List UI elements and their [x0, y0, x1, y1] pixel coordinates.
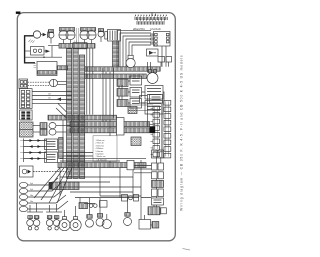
wire bottom feed line [75, 198, 139, 205]
wire bundle frame cross [48, 115, 117, 120]
flasher relay [20, 166, 71, 177]
svg-text:GYel Rwht: GYel Rwht [150, 28, 161, 31]
regulator unit box [45, 152, 58, 163]
tail lamp bulb [124, 198, 132, 226]
wire front lamp feeds [30, 203, 57, 212]
svg-text:6 Ignition: 6 Ignition [96, 153, 104, 156]
connector small bottom [79, 201, 107, 209]
colour code legend row 2 [137, 21, 164, 25]
headlamp bulb [86, 198, 94, 227]
rectifier bridge D1-D4 [20, 139, 47, 163]
registration mark [16, 12, 21, 14]
node text parts list [96, 140, 107, 162]
terminal strip B [164, 101, 171, 158]
spark plug 3 [19, 189, 64, 200]
spark plug 4 [19, 195, 66, 206]
connector block P3 [20, 110, 33, 120]
legend caption text [133, 28, 161, 31]
fuse holder boxes [148, 57, 172, 73]
regulator box [34, 62, 58, 76]
condenser box 3 [130, 99, 142, 109]
parts list outline [93, 136, 117, 162]
colour code legend row 1 [135, 13, 167, 20]
wire handlebar leads [32, 92, 72, 104]
starter magnetic switch [147, 46, 167, 67]
wire mid right verticals [103, 68, 114, 168]
ignition coil unit 2 [145, 101, 163, 115]
position lamp bulb [96, 198, 104, 226]
svg-text:Lbr: Lbr [48, 98, 51, 100]
wire bundle regulator leads [57, 66, 68, 70]
spark plug 2 [19, 183, 61, 194]
wire battery feed thick [25, 36, 35, 63]
svg-text:1 Main sw: 1 Main sw [96, 140, 106, 142]
inline fuse row 2 [33, 129, 70, 135]
wire bundle main harness right [80, 55, 85, 179]
instrument connector CS1 [59, 43, 95, 49]
ignition coil T1 [105, 30, 121, 42]
contact breaker strip 2 [117, 89, 128, 97]
wire dashed pair [28, 82, 50, 85]
node lamp labels [74, 28, 79, 44]
wire bundle tail lower [70, 128, 150, 133]
svg-text:4 Winker: 4 Winker [96, 148, 104, 150]
svg-text:aBlackYBrn: aBlackYBrn [133, 28, 146, 31]
wire verticals beside bundle [87, 49, 93, 115]
wire bundle coil drop [113, 41, 119, 67]
wire lamp feeds [48, 46, 59, 57]
tachometer lamps L4 L5 [80, 28, 96, 44]
silicon rectifier box [45, 139, 58, 150]
wire bundle to horn [85, 74, 147, 78]
junction box small [140, 96, 148, 104]
starter relay box [150, 95, 163, 104]
wire nested switch leads [117, 30, 151, 67]
horn H1 [59, 210, 70, 231]
svg-text:2 Horn bt: 2 Horn bt [96, 142, 105, 145]
condenser box 2 [130, 88, 142, 98]
contact breaker strip 3 [117, 100, 128, 107]
wire diagonal cross left [56, 104, 67, 163]
wire bundle tail upper [70, 122, 150, 127]
front winker lamps left [27, 212, 43, 230]
fuse box X1 [128, 105, 153, 114]
main switch S1 [126, 55, 135, 67]
front winker lamps right [46, 212, 62, 230]
legend letter dots [135, 15, 167, 21]
rear junction boxes [122, 195, 139, 202]
condenser box 1 [130, 76, 142, 85]
wire bundle headlamp to switch [85, 67, 161, 71]
connector block P2 [20, 89, 33, 109]
svg-text:7 Brake sw: 7 Brake sw [96, 156, 106, 158]
fuse box X2 [131, 137, 141, 146]
wire bundle main harness mid [73, 49, 78, 179]
wire rear routing grid [60, 168, 141, 196]
wire bundle rear harness [58, 163, 146, 168]
wire accessory feed [25, 56, 62, 58]
svg-text:3 Dimmer: 3 Dimmer [96, 145, 105, 147]
battery connector pair [152, 150, 164, 158]
inline connector C2 [50, 79, 67, 86]
connector strip vertical [59, 138, 64, 159]
ignition switch S2 [151, 32, 170, 47]
connector junction on bundle [117, 118, 125, 135]
horn H2 [70, 206, 81, 231]
wire kill switch leads [63, 153, 93, 157]
lamp bulb L1 [48, 30, 54, 44]
rear harness connector [152, 180, 164, 187]
contact breaker strip 1 [117, 79, 128, 86]
wire terminal rails [151, 103, 163, 158]
node solid terminal [150, 126, 156, 133]
wire bundle main harness left [67, 49, 72, 179]
wire coil links [119, 78, 145, 103]
ignition coil unit 1 [145, 86, 163, 100]
indicator bulb L6 [98, 29, 104, 42]
rear brake switch box [152, 198, 164, 205]
main harness connector bottom [49, 182, 79, 190]
horn circle component [146, 70, 158, 84]
caption vertical text [180, 55, 184, 211]
node lead labels [48, 94, 61, 102]
page border frame [17, 13, 175, 241]
svg-text:Dbr: Dbr [30, 201, 34, 203]
svg-text:5 Starter: 5 Starter [96, 150, 104, 153]
meter lamp bulb [102, 214, 111, 229]
terminal strip A [153, 106, 160, 157]
wire rear harness diagonals [34, 168, 72, 203]
wire rear upper lines [60, 159, 146, 161]
spark plug 1 [19, 178, 58, 188]
connector block P4 [20, 122, 34, 137]
rear winker unit [139, 220, 159, 230]
svg-text:Wiring diagram — CB 350 F. K 4: Wiring diagram — CB 350 F. K 4-5. F-II a… [180, 55, 184, 211]
connector pair rear [152, 172, 164, 179]
speedometer lamps L2 L3 [59, 28, 75, 44]
connector junction on rear bundle [127, 160, 134, 169]
taillight unit [148, 207, 166, 215]
winker relay B1 [25, 47, 50, 56]
page artifact mark [183, 249, 191, 251]
svg-text:LbI: LbI [48, 94, 51, 96]
svg-text:Dbr: Dbr [30, 195, 34, 197]
connector block P1 [19, 79, 28, 89]
main fuse F1 [29, 31, 50, 43]
spark plug lead 5 [19, 201, 68, 212]
stop switch pair [152, 189, 164, 197]
wire right cluster links [120, 92, 164, 220]
inline fuse row 1 [33, 123, 70, 129]
starter relay pair [152, 163, 164, 170]
